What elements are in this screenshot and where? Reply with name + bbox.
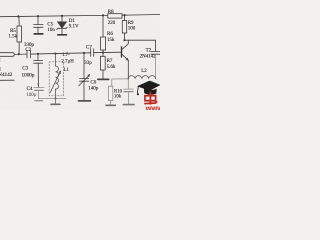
resistor R7 bbox=[100, 53, 105, 79]
resistor R4 input (cut at left edge) bbox=[0, 53, 14, 57]
label C7 33p bbox=[84, 46, 92, 66]
ground C5 bbox=[34, 33, 43, 35]
svg-text:33p: 33p bbox=[84, 61, 92, 66]
ground C10 bbox=[123, 104, 134, 106]
label 330p C2 bbox=[24, 43, 35, 53]
node junction C6/base bbox=[83, 52, 85, 54]
ground C6 bbox=[79, 100, 91, 102]
node junction R5/top bbox=[17, 15, 19, 17]
wire emitter branch to R10 bbox=[112, 79, 129, 86]
svg-text:2N4142: 2N4142 bbox=[140, 54, 156, 60]
label R8 220 bbox=[108, 10, 116, 26]
svg-text:D1: D1 bbox=[69, 19, 76, 24]
logo mortarboard cap bbox=[137, 81, 160, 95]
resistor R5 bbox=[17, 16, 22, 54]
label R6 15k bbox=[107, 32, 115, 43]
svg-text:1000p: 1000p bbox=[22, 72, 35, 78]
wire T1 emitter stub (cut at left) bbox=[0, 79, 14, 81]
svg-text:1.7-: 1.7- bbox=[62, 53, 70, 58]
variable capacitor C6 bbox=[79, 53, 90, 100]
node emitter junction bbox=[127, 78, 129, 80]
resistor R6 bbox=[101, 37, 106, 53]
svg-text:C4: C4 bbox=[27, 87, 33, 92]
svg-text:R5: R5 bbox=[10, 29, 16, 34]
wire emitter down bbox=[127, 60, 129, 79]
svg-text:10k: 10k bbox=[114, 95, 122, 100]
svg-text:C6: C6 bbox=[90, 80, 96, 85]
shield box L1 dashed bbox=[49, 62, 63, 96]
svg-text:10n: 10n bbox=[47, 28, 55, 33]
inductor L2 bbox=[128, 76, 155, 79]
svg-text:100p: 100p bbox=[26, 93, 37, 98]
svg-text:220: 220 bbox=[108, 21, 116, 26]
label L1 range bbox=[62, 53, 75, 73]
svg-text:C5: C5 bbox=[47, 22, 53, 27]
label R9 100 bbox=[128, 21, 136, 32]
capacitor C3 bbox=[34, 54, 43, 88]
node junction C3/C4 bbox=[37, 83, 39, 85]
svg-text:N4142: N4142 bbox=[0, 72, 13, 78]
svg-text:1.5k: 1.5k bbox=[8, 35, 17, 40]
ground L1 bbox=[51, 99, 60, 105]
resistor R8 bbox=[108, 14, 122, 18]
svg-text:9.1V: 9.1V bbox=[69, 25, 79, 30]
node junction L1/ground wire bbox=[55, 98, 57, 100]
label C5 10n bbox=[47, 22, 55, 32]
svg-text:100: 100 bbox=[128, 27, 136, 32]
label T2 2N4142 bbox=[140, 48, 156, 60]
svg-text:R7: R7 bbox=[107, 59, 113, 64]
svg-text:C7: C7 bbox=[86, 46, 92, 51]
label C6 140p bbox=[88, 80, 99, 91]
node junction R5/base bbox=[18, 53, 20, 55]
node collector junction bbox=[123, 39, 125, 41]
svg-text:L1: L1 bbox=[64, 68, 70, 73]
label T1 2N4142 cut at left edge bbox=[0, 57, 13, 78]
svg-text:15k: 15k bbox=[107, 38, 115, 43]
wire top rail right of R8 bbox=[122, 14, 160, 17]
svg-text:L2: L2 bbox=[141, 69, 147, 74]
logo red character bbox=[144, 92, 157, 105]
svg-text:C3: C3 bbox=[22, 66, 28, 72]
resistor R10 bbox=[108, 86, 112, 104]
transistor T2 bbox=[122, 40, 129, 60]
capacitor C7 bbox=[91, 49, 94, 57]
wire base line middle section bbox=[31, 53, 91, 54]
node junction C3/base bbox=[37, 53, 39, 55]
capacitor C2 bbox=[27, 50, 31, 58]
capacitor C10 bbox=[124, 79, 134, 104]
wire bottom left ground wire bbox=[39, 97, 66, 99]
wire R6 top lead bbox=[102, 15, 104, 37]
label R10 faint bbox=[114, 90, 123, 100]
label C4 100p bbox=[26, 87, 37, 98]
svg-text:C2: C2 bbox=[25, 48, 31, 53]
node junction L1/base bbox=[54, 53, 56, 55]
wire collector to C9 bbox=[125, 40, 156, 51]
svg-text:WWW: WWW bbox=[146, 106, 160, 110]
svg-text:R6: R6 bbox=[107, 32, 113, 37]
label R7 5.6k bbox=[107, 59, 116, 70]
ground C4 bbox=[35, 100, 43, 102]
node junction R6/top bbox=[102, 14, 104, 16]
inductor L1 tunable bbox=[50, 54, 60, 99]
wire top supply rail bbox=[0, 15, 108, 16]
node junction C5/top bbox=[37, 15, 39, 17]
node junction R7/base bbox=[102, 51, 104, 53]
node junction R9/top bbox=[123, 14, 125, 16]
label C3 1000p bbox=[22, 66, 35, 79]
svg-text:140p: 140p bbox=[88, 87, 99, 92]
wire base line left section bbox=[14, 53, 27, 55]
node junction D1/top bbox=[61, 15, 63, 17]
resistor R9 bbox=[122, 15, 126, 40]
capacitor C5 bbox=[34, 16, 43, 33]
zener diode D1 bbox=[57, 16, 67, 34]
paper background bbox=[0, 0, 160, 110]
label L2 bbox=[141, 69, 147, 74]
label D1 9.1V bbox=[69, 19, 79, 30]
ground R10 bbox=[106, 104, 115, 106]
svg-text:5.6k: 5.6k bbox=[107, 65, 116, 70]
ground D1 bbox=[58, 34, 67, 36]
label R5 bbox=[8, 29, 17, 40]
svg-text:R9: R9 bbox=[128, 21, 134, 26]
capacitor C4 bbox=[34, 88, 44, 99]
svg-text:2.7μH: 2.7μH bbox=[62, 59, 75, 64]
ground R7 bbox=[98, 78, 109, 80]
wire base line right section bbox=[94, 51, 122, 54]
svg-text:R8: R8 bbox=[108, 10, 114, 15]
capacitor C9 bbox=[151, 52, 160, 79]
